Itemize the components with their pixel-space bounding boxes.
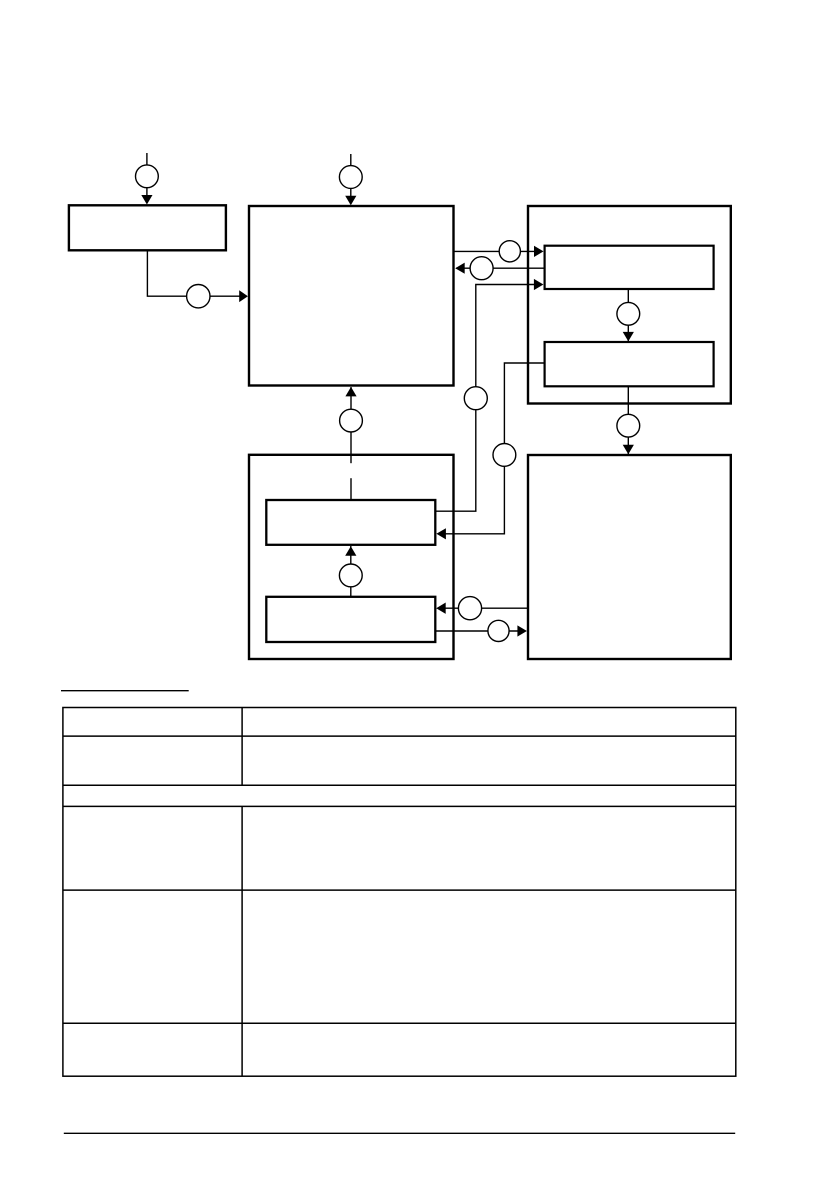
arrowhead: right into center box left edge: [239, 290, 248, 302]
box: lower-left inner box 2: [266, 597, 435, 642]
circle callout 4 (between inner boxes 1 and 2): [339, 564, 362, 587]
footer rule: [64, 1132, 735, 1134]
arrowhead: down into top-left box: [141, 195, 152, 205]
wire: box B to lower-right box: [627, 386, 629, 454]
circle callout 5 (between box A and box B): [617, 302, 640, 325]
wire: top-left box to center box (L-shape): [147, 252, 241, 297]
arrowhead: left into inner box 2 (line 5): [436, 603, 446, 614]
arrowhead: down into box B top: [623, 332, 634, 342]
circle callout 9 (on line 3 vertical): [464, 387, 487, 410]
wire: resumed segment into inner box 1 (after gap): [350, 478, 352, 499]
wire: center box bottom to circle 3: [350, 387, 352, 463]
circle callout 6 (below right container): [617, 414, 640, 437]
arrowhead: down into lower-right box top: [623, 445, 634, 455]
box: lower-left container: [249, 455, 454, 659]
wire: circle 2 to center box: [350, 188, 352, 198]
wire: line 3 inner box 1 up to box A: [436, 285, 541, 512]
table: row line 5: [63, 1022, 736, 1024]
circle callout 8 (on line 2): [470, 257, 493, 280]
circle callout 1 (above top-left box): [136, 165, 159, 188]
arrowhead: down into center box: [345, 196, 356, 206]
circle callout 12 (on line 6): [488, 620, 509, 641]
wire: line 2 box A to center box: [456, 267, 545, 269]
wire: line 1 center box to box A: [454, 250, 543, 252]
wire: line 6 inner box 2 to lower-right box: [435, 630, 526, 632]
arrowhead: right into box A (line 3): [534, 279, 544, 290]
box: lower-right large block: [528, 455, 731, 659]
table: row line 2: [63, 784, 736, 786]
circle callout 3 (below center box): [340, 409, 363, 432]
arrowhead: right into box A (line 1): [534, 246, 544, 257]
circle callout 13 (on wire from top-left box): [187, 285, 210, 308]
wire: circle 1 to top-left box: [146, 188, 148, 199]
table: row line 1: [63, 735, 736, 737]
circle callout 11 (on line 5): [458, 597, 481, 620]
arrowhead: up into inner box 1 bottom: [345, 546, 356, 556]
wire: line 5 lower-right box to inner box 2: [438, 607, 528, 609]
wire: box A to box B: [627, 290, 629, 342]
arrowhead: left into center box (line 2): [455, 263, 465, 274]
table: column divider upper: [241, 708, 243, 786]
circle callout 10 (on line 4 vertical): [493, 444, 516, 467]
heading underline above table: [61, 690, 189, 692]
arrowhead: right into lower-right box (line 6): [517, 625, 527, 636]
circle callout 2 (above center box): [339, 166, 362, 189]
arrowhead: left into inner box 1 (line 4): [436, 528, 446, 539]
box: right inner box B: [545, 342, 714, 386]
box: center large block: [249, 206, 454, 386]
box: right inner box A: [545, 246, 714, 289]
circle callout 7 (on line 1): [499, 241, 520, 262]
wire: stub above circle 2: [350, 154, 352, 166]
table: outer border: [63, 708, 736, 1077]
wire: inner box 1 to inner box 2: [350, 546, 352, 597]
box: lower-left inner box 1: [266, 500, 435, 545]
table: row line 3 (thin spacer row): [63, 805, 736, 807]
arrowhead: up into center box bottom edge: [345, 387, 356, 397]
box: right container: [528, 206, 731, 404]
wire: line 4 box B down to inner box 1: [438, 363, 545, 534]
table: row line 4: [63, 889, 736, 891]
table: column divider lower: [241, 806, 243, 1076]
box: top-left process box: [69, 205, 226, 250]
wire: stub above circle 1: [146, 153, 148, 166]
